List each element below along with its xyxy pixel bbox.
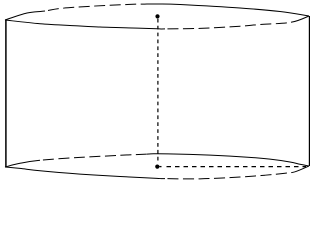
top ellipse solid upper-right arc [147, 4, 309, 16]
cylinder figure [0, 0, 314, 186]
dashed radius nub at dot [160, 166, 162, 168]
bottom ellipse solid upper-right arc [147, 154, 309, 166]
bottom ellipse solid lower-right tip arc [295, 166, 309, 172]
dashed radius [167, 166, 307, 168]
top center dot [155, 14, 159, 18]
bottom ellipse dashed upper-left arc [40, 154, 147, 160]
top ellipse solid lower-left arc [5, 20, 165, 29]
top ellipse solid lower-right tip arc [291, 16, 309, 22]
dashed axis [157, 19, 159, 164]
top ellipse dashed lower-right arc [165, 22, 291, 29]
bottom ellipse solid upper-left arc near tip [5, 160, 40, 167]
top ellipse dashed upper-left arc [45, 4, 147, 11]
bottom ellipse dashed lower-right arc [165, 172, 295, 179]
top ellipse solid upper-left arc near tip [5, 11, 45, 20]
left side wire [5, 20, 7, 167]
bottom center dot [155, 165, 159, 169]
right side wire [308, 16, 310, 166]
bottom ellipse solid lower-left arc [5, 167, 165, 179]
